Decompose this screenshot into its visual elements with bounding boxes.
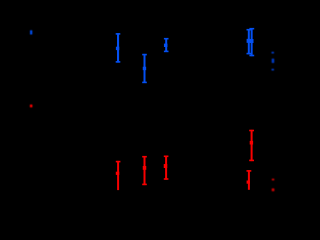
point R7 dim clipped marks — [272, 179, 275, 192]
point R3 errorbar — [142, 156, 147, 185]
point B2 errorbar — [116, 33, 121, 63]
point B6 errorbar — [249, 28, 254, 56]
point R2 errorbar clipped bottom — [116, 161, 121, 190]
point R1 small blob — [30, 105, 33, 108]
red series — [30, 105, 275, 192]
point R6 errorbar clipped bottom — [247, 170, 252, 190]
point B7 dim clipped errorbar — [272, 52, 275, 71]
blue series — [30, 28, 274, 83]
point B3 errorbar — [142, 54, 147, 83]
point B1 small blob — [30, 30, 32, 34]
point B5 errorbar — [247, 29, 252, 54]
point R5 errorbar — [249, 130, 254, 162]
point R4 errorbar — [164, 156, 169, 180]
point B4 errorbar — [164, 38, 169, 52]
